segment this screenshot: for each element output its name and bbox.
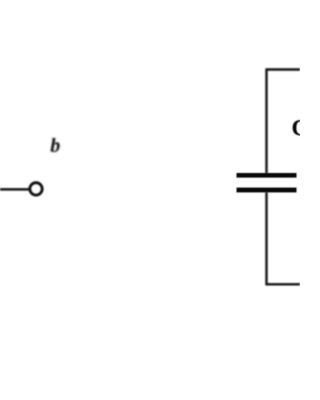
svg-text:b: b xyxy=(50,135,60,157)
svg-text:C: C xyxy=(292,115,301,140)
